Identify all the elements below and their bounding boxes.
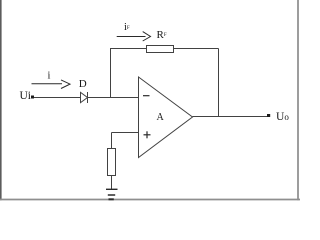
wire input Ui to diode [34,97,81,99]
resistor R (balance resistor) [108,149,116,176]
svg-text:i: i [48,71,51,82]
resistor RF [147,46,174,53]
wire feedback left vertical [110,49,112,98]
svg-text:A: A [157,112,165,123]
svg-text:RF: RF [157,29,167,41]
node Ui terminal dot [31,96,34,99]
svg-text:D: D [79,78,87,90]
op-amp plus sign [144,131,151,138]
wire op-amp noninverting input horizontal [112,132,139,134]
svg-text:Ui: Ui [20,90,32,102]
ground [106,189,118,199]
wire output [193,116,268,118]
wire feedback right vertical [218,49,220,117]
frame bottom border [0,199,300,201]
wire feedback top right [174,48,219,50]
current arrow iF [117,32,151,41]
diode D [81,92,88,103]
op-amp A [139,77,193,158]
wire noninverting input vertical down [111,133,113,150]
wire diode to op-amp inverting input [88,97,139,99]
op-amp minus sign [143,95,150,97]
node Uo terminal dot [267,114,270,117]
wire feedback top left [110,48,146,50]
wire resistor to ground [111,176,113,190]
frame right border [297,0,299,200]
current arrow i [32,80,71,89]
frame left border [0,0,2,200]
svg-text:iF: iF [124,22,130,33]
svg-text:Uo: Uo [276,111,289,123]
